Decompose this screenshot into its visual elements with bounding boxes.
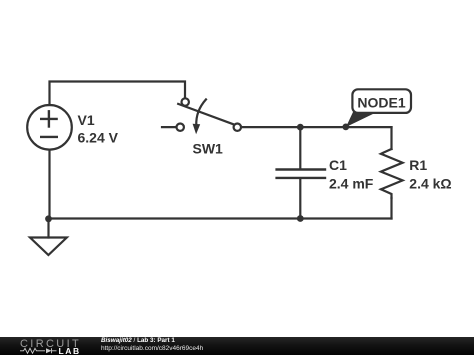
svg-text:2.4 kΩ: 2.4 kΩ bbox=[409, 176, 451, 192]
logo CircuitLab bbox=[0, 337, 95, 355]
resistor R1 bbox=[381, 149, 403, 198]
node NODE1 flag bbox=[346, 89, 411, 127]
svg-text:V1: V1 bbox=[78, 112, 95, 128]
capacitor C1 bbox=[277, 170, 325, 178]
wire R1 top lead bbox=[390, 127, 392, 149]
wire C1 top lead bbox=[299, 127, 301, 168]
node junction dot C1 bottom bbox=[297, 215, 304, 222]
node NODE1 junction dot bbox=[342, 124, 349, 131]
svg-text:6.24 V: 6.24 V bbox=[78, 129, 119, 145]
node junction dot C1 top bbox=[297, 124, 304, 131]
wire R1 bottom lead bbox=[390, 198, 392, 219]
node junction dot ground bbox=[45, 215, 52, 222]
wire middle rail SW1 to R1 bbox=[242, 126, 392, 128]
wire ground stub bbox=[47, 219, 49, 238]
svg-text:C1: C1 bbox=[329, 157, 347, 173]
label C1 value bbox=[329, 157, 374, 192]
voltage source V1 bbox=[27, 105, 72, 150]
label R1 value bbox=[409, 157, 451, 192]
wire bottom rail bbox=[49, 217, 392, 219]
label V1 value bbox=[78, 112, 119, 145]
svg-text:NODE1: NODE1 bbox=[357, 94, 405, 110]
wire V1 bottom to ground node bbox=[48, 150, 50, 219]
footer url text bbox=[101, 345, 203, 352]
ground bbox=[30, 238, 67, 256]
svg-text:R1: R1 bbox=[409, 157, 427, 173]
switch SW1 bbox=[162, 98, 241, 134]
footer title text bbox=[101, 337, 175, 344]
svg-text:SW1: SW1 bbox=[193, 141, 224, 157]
footer bar bbox=[0, 337, 474, 355]
wire top rail from V1 to SW1 pole bbox=[50, 82, 186, 106]
wire C1 bottom lead bbox=[299, 179, 301, 219]
svg-text:LAB: LAB bbox=[59, 346, 81, 355]
svg-text:2.4 mF: 2.4 mF bbox=[329, 176, 374, 192]
